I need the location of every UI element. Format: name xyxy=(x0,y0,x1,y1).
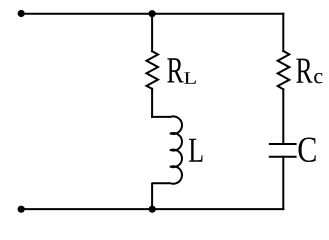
wire bottom horizontal xyxy=(21,208,283,210)
label C xyxy=(298,137,315,161)
label RL xyxy=(167,58,195,83)
resistor Rc zigzag xyxy=(278,51,290,89)
capacitor C bottom plate xyxy=(269,156,297,158)
wire right branch lower xyxy=(282,157,284,209)
label L xyxy=(189,139,203,162)
wire right branch between resistor and capacitor xyxy=(282,89,284,144)
capacitor C top plate xyxy=(269,143,297,145)
inductor L coil xyxy=(152,116,182,209)
terminal dot top-left xyxy=(18,10,25,17)
label Rc xyxy=(296,59,322,84)
wire right branch upper xyxy=(282,14,284,51)
terminal dot bottom-left xyxy=(18,206,25,213)
resistor RL zigzag xyxy=(147,51,159,89)
wire middle branch upper xyxy=(151,14,153,52)
wire top horizontal xyxy=(21,13,283,15)
node junction bottom middle xyxy=(149,206,156,213)
node junction top middle xyxy=(149,10,156,17)
wire middle branch between resistor and inductor xyxy=(151,89,153,117)
